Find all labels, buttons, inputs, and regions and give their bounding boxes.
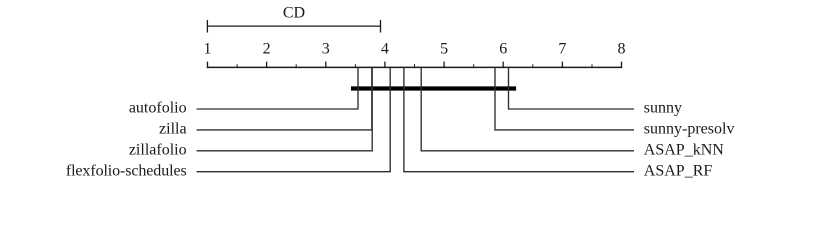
svg-text:zilla: zilla	[159, 121, 187, 138]
CD interval bracket	[207, 20, 380, 33]
svg-text:sunny: sunny	[644, 100, 682, 117]
connector lines	[197, 67, 634, 171]
ASAP_RF connector	[404, 67, 634, 171]
svg-text:CD: CD	[283, 4, 305, 21]
svg-text:ASAP_RF: ASAP_RF	[644, 162, 713, 179]
minor ticks	[237, 64, 592, 68]
right labels	[644, 100, 735, 180]
axis line	[207, 66, 622, 68]
axis number labels 1-8	[204, 41, 626, 58]
zillafolio connector	[197, 67, 373, 150]
svg-text:4: 4	[381, 41, 389, 58]
svg-text:7: 7	[558, 41, 566, 58]
autofolio connector	[197, 67, 358, 109]
left labels	[66, 100, 187, 180]
svg-text:sunny-presolv: sunny-presolv	[644, 121, 735, 138]
zilla connector	[197, 67, 372, 129]
svg-text:6: 6	[499, 41, 507, 58]
major ticks	[208, 62, 622, 69]
svg-text:1: 1	[204, 41, 212, 58]
svg-text:8: 8	[618, 41, 626, 58]
svg-text:ASAP_kNN: ASAP_kNN	[644, 142, 724, 159]
svg-text:3: 3	[322, 41, 330, 58]
svg-text:5: 5	[440, 41, 448, 58]
svg-text:zillafolio: zillafolio	[129, 142, 187, 159]
sunny-presolv connector	[495, 67, 634, 129]
significance bar (clique)	[351, 86, 516, 90]
svg-text:2: 2	[263, 41, 271, 58]
svg-text:flexfolio-schedules: flexfolio-schedules	[66, 162, 187, 179]
svg-text:autofolio: autofolio	[129, 100, 187, 117]
ASAP_kNN connector	[421, 67, 634, 150]
flexfolio-schedules connector	[197, 67, 391, 171]
sunny connector	[509, 67, 635, 109]
